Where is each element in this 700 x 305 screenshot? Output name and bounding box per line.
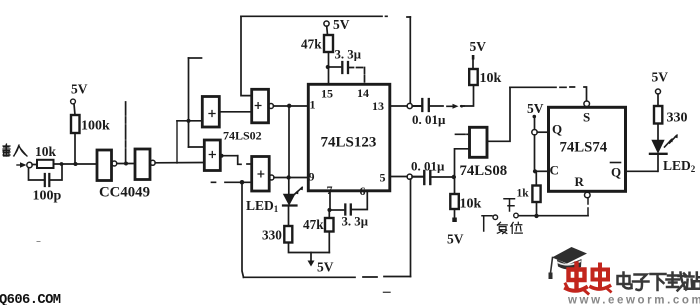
node junction C: [533, 169, 537, 173]
wire vertical x188: [188, 58, 190, 147]
svg-text:74LS74: 74LS74: [560, 140, 608, 156]
dot on wire: [460, 105, 463, 108]
node junction dot: [452, 175, 456, 179]
gate G3 plus mark: [209, 152, 215, 158]
svg-text:5: 5: [380, 171, 386, 185]
svg-text:Q: Q: [552, 122, 562, 137]
wire top line to S pin: [510, 87, 587, 101]
wire 100k down to input rail: [74, 133, 76, 164]
node junction 47k/cap top: [326, 65, 330, 69]
capacitor 100p right wire: [51, 164, 63, 180]
svg-text:5V: 5V: [333, 17, 350, 32]
wire feedback bottom line: [244, 276, 411, 279]
wire 5V to 100k: [74, 104, 75, 115]
capacitor 100p: [45, 174, 50, 186]
LED D1 light arrows: [291, 188, 302, 198]
capacitor 3.3u top: [342, 62, 348, 73]
node junction pin1 wire / LED1 riser: [287, 104, 291, 108]
svg-text:R: R: [575, 174, 585, 189]
node 输入 label: [3, 144, 27, 156]
wire gate upper input stub: [456, 133, 470, 135]
resistor 10k (mid right): [450, 194, 459, 209]
svg-text:330: 330: [262, 228, 282, 243]
wire 47k bottom leads: [328, 212, 330, 253]
node junction after 10k: [60, 162, 64, 166]
svg-text:5V: 5V: [447, 232, 464, 247]
label 输入 (input): [3, 145, 27, 156]
logo cap: [552, 247, 587, 264]
svg-text:10k: 10k: [460, 197, 482, 212]
logo 电子下载站 text strokes: [618, 273, 700, 291]
gate G4 74LS02 box: [252, 157, 270, 192]
node junction at x177: [176, 121, 178, 163]
wire U1a to node: [117, 163, 135, 165]
wire input to R 10k: [32, 164, 37, 166]
wire 330 to 5V rail: [289, 243, 330, 253]
wire vertical x454 to gate input and 10k: [455, 149, 470, 194]
gate G3 74LS02 box: [204, 140, 220, 171]
resistor 330 (LED2): [654, 106, 662, 124]
IC U2 74LS123 box: [308, 84, 390, 191]
svg-text:C: C: [550, 163, 559, 178]
node circle Q junction: [532, 130, 537, 135]
wire LED1 anode lead: [288, 178, 290, 195]
wire LED2 cathode to Qbar: [657, 154, 659, 172]
scan speck marks: [384, 291, 391, 293]
wire G3 out right: [221, 155, 238, 157]
char 子: [633, 275, 649, 291]
svg-text:330: 330: [667, 111, 688, 126]
switch 复位 left bracket: [482, 216, 492, 231]
wire cap to 10k junction (dash-dot): [431, 105, 465, 107]
wire 47k to pin15: [328, 52, 330, 84]
resistor 330 (LED1): [284, 226, 292, 243]
resistor 1k: [532, 186, 540, 203]
logo 虫 1 (red): [566, 264, 589, 294]
capacitor 100p loop left wire: [29, 168, 44, 180]
char 下: [651, 274, 666, 290]
svg-text:100p: 100p: [33, 189, 62, 204]
wire LED1 cathode lead: [288, 206, 290, 227]
svg-text:5V: 5V: [527, 101, 544, 116]
svg-text:47k: 47k: [303, 217, 324, 232]
resistor 10k (series input): [37, 160, 54, 168]
node junction pin9 wire / LED1: [286, 175, 290, 179]
svg-text:5V: 5V: [470, 39, 487, 54]
gate G2 plus mark: [255, 103, 261, 109]
gate G2 74LS02 box: [252, 89, 269, 123]
wire G4 lower input (feedback): [212, 181, 253, 183]
wire LED1 riser from pin1 wire: [288, 106, 290, 178]
wire feedback vertical right: [410, 179, 412, 277]
wire 5V to 47k top: [326, 26, 329, 35]
wire G4 output to pin9: [274, 177, 308, 179]
5V terminal circle (left): [71, 99, 76, 104]
wire 1k top to C junction: [535, 171, 537, 185]
svg-text:6: 6: [360, 184, 366, 198]
svg-text:CC4049: CC4049: [99, 185, 150, 201]
wire G4 upper input stub: [247, 163, 252, 165]
wire G1 out to G2 in: [220, 111, 252, 113]
5V terminal tick (top right): [472, 55, 475, 60]
svg-text:0. 01μ: 0. 01μ: [411, 159, 445, 174]
node circle junction pin13/feedback: [407, 103, 412, 108]
wire stub up from node (open end): [125, 102, 127, 163]
flip-flop S bubble: [584, 101, 590, 107]
char 站: [685, 273, 700, 289]
svg-text:74LS08: 74LS08: [460, 163, 508, 179]
svg-text:3. 3μ: 3. 3μ: [342, 215, 369, 229]
wire top feedback vertical x241: [241, 16, 252, 95]
gate U3 74LS08 box: [470, 127, 488, 157]
wire G3 out down jog: [238, 156, 241, 165]
wire 10k to 5V terminal: [454, 209, 456, 218]
wire 5V to 330: [657, 94, 659, 106]
power 5V arrow (bottom center): [310, 253, 312, 262]
input terminal circle: [27, 162, 32, 167]
node junction 100k/rail: [74, 162, 78, 166]
char 载: [667, 273, 687, 291]
inverter U1b bubble: [150, 160, 155, 165]
LED D1: [284, 194, 295, 204]
gate G2 output bubble: [269, 104, 274, 109]
5V terminal circle (top center): [324, 21, 329, 26]
LED D2 light arrows: [665, 136, 677, 148]
svg-text:7: 7: [327, 183, 333, 197]
wire junction to cap bottom: [331, 209, 344, 211]
node junction pin7/cap/47k bottom: [327, 208, 331, 212]
wire 10k corner: [464, 85, 474, 106]
svg-text:13: 13: [372, 99, 384, 113]
LED D2: [652, 140, 663, 152]
wire 10k to inverter: [54, 163, 98, 165]
gate G4 plus mark: [258, 171, 264, 177]
wire U1b output to 74LS02 inputs: [155, 162, 203, 164]
wire G1 input rail: [177, 120, 202, 122]
node circle junction pin5/feedback: [407, 174, 412, 179]
node G3 output dot: [220, 154, 224, 158]
capacitor 0.01u top: [412, 99, 429, 111]
svg-text:10k: 10k: [35, 144, 57, 159]
svg-text:15: 15: [321, 87, 333, 101]
IC U4 74LS74 box: [549, 107, 626, 191]
wire G2 output to pin1: [274, 105, 309, 107]
wire pin7 down: [329, 191, 331, 210]
5V terminal dot (74LS74): [533, 115, 537, 119]
logo 虫 2 (red): [591, 265, 611, 292]
wire G3 upper input: [189, 146, 205, 148]
wire pin5 out: [390, 176, 407, 178]
resistor 47k (top): [324, 35, 333, 52]
wire vertical 5V-Q-C: [534, 119, 536, 170]
inverter U1a bubble: [112, 161, 117, 166]
char 电: [618, 273, 632, 289]
capacitor 3.3u bottom: [345, 205, 351, 215]
svg-text:9: 9: [309, 170, 315, 184]
gate G1 plus mark: [209, 111, 215, 117]
node junction G1 input: [186, 119, 190, 123]
svg-text:14: 14: [357, 86, 369, 100]
svg-text:74LS123: 74LS123: [321, 135, 377, 151]
wire cap bottom to pin6: [352, 191, 367, 210]
wire 330 to LED2: [657, 124, 659, 141]
wire 5V to 10k: [472, 60, 474, 70]
5V terminal square (mid right): [452, 218, 457, 223]
svg-text:1k: 1k: [517, 188, 530, 200]
wire switch to R line: [518, 215, 588, 217]
node feedback junction dot: [240, 180, 245, 185]
wire junction to cap top: [329, 66, 341, 68]
gate G4 output bubble: [269, 175, 274, 180]
capacitor 0.01u bottom: [412, 171, 430, 184]
svg-text:100k: 100k: [81, 119, 110, 134]
svg-text:www.eeworm.com: www.eeworm.com: [567, 295, 700, 305]
switch terminal circles: [493, 215, 498, 220]
node junction 1k/reset: [534, 214, 538, 218]
svg-text:5V: 5V: [317, 260, 334, 275]
inverter U1a box: [97, 150, 112, 181]
wire cap to 74LS08 lower input node: [432, 176, 454, 178]
flip-flop R bubble: [585, 192, 591, 198]
label 复位 (reset): [497, 222, 522, 233]
input arrow: [17, 164, 24, 166]
wire pin13 out: [390, 105, 407, 107]
wire 1k bottom lead: [536, 202, 538, 216]
wire C junction to flip-flop C pin: [535, 170, 548, 172]
svg-text:47k: 47k: [301, 37, 322, 52]
wire feedback vertical left: [242, 182, 244, 277]
wire R pin vertical (dashed): [587, 199, 589, 216]
wire gate output riser: [487, 87, 510, 141]
5V terminal circle (right): [656, 89, 661, 94]
svg-text:5V: 5V: [71, 82, 88, 97]
resistor 100k pull-up: [71, 115, 80, 133]
svg-text:Q606.COM: Q606.COM: [0, 293, 61, 305]
svg-text:3. 3μ: 3. 3μ: [335, 48, 362, 62]
inverter U1b box: [135, 149, 150, 180]
wire Q pin: [537, 131, 548, 133]
switch actuator: [504, 199, 515, 211]
svg-text:0. 01μ: 0. 01μ: [412, 112, 446, 127]
svg-text:10k: 10k: [480, 71, 502, 86]
wire Qbar output: [626, 170, 658, 172]
wire top feedback vertical right x410: [409, 17, 411, 103]
LOGO eeworm: [549, 247, 700, 305]
wire cap top to pin14: [350, 68, 365, 85]
arrowhead on wire: [453, 104, 459, 109]
gate G1 74LS02 box: [202, 97, 219, 128]
wire top feedback line y16: [241, 15, 410, 18]
wire stub y58: [189, 57, 202, 59]
node junction between inverters: [124, 162, 128, 166]
svg-text:74LS02: 74LS02: [223, 129, 262, 143]
svg-text:5V: 5V: [652, 70, 669, 85]
resistor 10k (top right): [469, 69, 478, 85]
svg-text:1: 1: [310, 98, 316, 112]
svg-text:S: S: [583, 110, 590, 125]
resistor 47k (bottom): [325, 218, 334, 232]
svg-text:Q: Q: [611, 165, 621, 180]
